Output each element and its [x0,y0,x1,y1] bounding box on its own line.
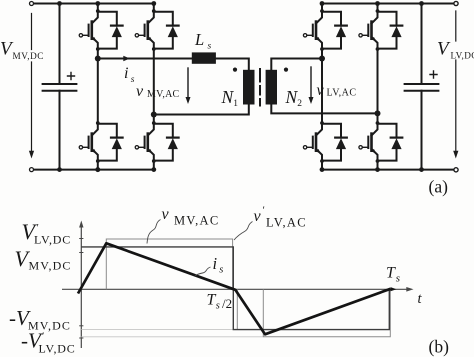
v_LV,AC arrow [309,67,314,104]
LV top terminal [454,1,458,5]
y axis arrowhead [79,221,83,228]
wire leg2 to N1 bottom [154,105,249,115]
svg-text:LV,DC: LV,DC [451,51,474,61]
svg-text:2: 2 [297,99,302,109]
svg-text:′: ′ [263,205,265,217]
x axis [62,288,407,290]
svg-text:V: V [437,39,451,60]
svg-text:T: T [386,265,396,282]
leader i_s [195,267,211,276]
tick V'LV [79,238,83,240]
svg-text:t: t [418,291,423,307]
leg1 wire [97,4,99,170]
node B (leg2 midpoint tap) [151,112,157,118]
v'_LV,AC waveform (thin) [106,239,390,337]
i_s waveform (thick) [78,243,391,334]
v_MV,AC waveform (medium) [81,247,389,330]
capacitor C_MV [43,4,77,170]
svg-text:LV,DC: LV,DC [34,233,71,247]
diode D8 [376,121,403,163]
transistor Q4 [135,124,154,161]
svg-text:L: L [194,30,204,49]
svg-text:s: s [216,301,220,312]
transistor Q7 [359,12,378,49]
x axis arrowhead [406,287,413,292]
svg-text:s: s [131,75,135,85]
diode D7 [376,9,403,51]
diode D3 [152,9,179,51]
wire leg1 to L_s [98,58,192,60]
leg4 wire [377,4,379,170]
svg-text:v: v [136,83,144,100]
svg-text:MV,DC: MV,DC [29,259,72,273]
transistor Q2 [79,124,98,161]
node A (leg1 midpoint) [95,56,101,62]
polarity dot N1 [233,68,237,72]
V_LV,DC measure arrow [453,11,458,159]
svg-text:s: s [396,273,400,285]
svg-text:MV,AC: MV,AC [174,214,220,228]
diode D6 [320,121,347,163]
transistor Q5 [303,12,322,49]
diode D2 [96,121,123,163]
leader v'_LV,AC [234,222,253,241]
transformer winding N2 [266,70,277,105]
svg-text:LV,DC: LV,DC [39,342,76,356]
leader v_MV,AC [147,220,161,244]
polarity dot N2 [284,68,288,72]
diode D5 [320,9,347,51]
i_s arrowhead [123,56,130,62]
LV top rail [322,3,454,5]
tick -V'LV [79,337,83,339]
i_s end arrowhead / T_s marker [391,287,397,291]
svg-text:s: s [219,265,223,276]
svg-text:MV,AC: MV,AC [147,89,180,100]
node C (leg3 midpoint) [319,56,325,62]
svg-text:s: s [208,42,212,52]
svg-text:v: v [254,208,262,225]
node D (leg4 midpoint tap) [375,110,381,116]
wire N2 to leg3 [271,59,322,70]
tick VMV [79,252,83,254]
svg-text:i: i [213,254,218,273]
svg-text:i: i [124,65,128,82]
faint -V'_LV,DC reference line [81,336,263,338]
svg-text:v: v [317,82,325,99]
transformer core [259,69,261,106]
MV top rail [34,3,154,5]
transistor Q1 [79,12,98,49]
leg2 wire [153,4,155,170]
transistor Q8 [359,124,378,161]
inductor L_s [192,52,216,63]
MV bottom terminal [30,168,34,172]
transformer winding N1 [243,70,255,105]
y axis [80,226,82,348]
V_MV,DC measure arrow [29,14,34,159]
svg-text:(b): (b) [429,337,450,357]
junction dots LV rails [320,1,424,172]
wire N2 bottom to leg4 [271,105,377,114]
MV top terminal [30,2,34,6]
LV bottom terminal [454,168,458,172]
tick -VMV [79,325,83,327]
svg-text:LV,AC: LV,AC [327,88,357,99]
junction dots MV rails [57,1,156,172]
wire L_s to N1 [216,59,249,70]
svg-text:/2: /2 [222,296,232,311]
capacitor C_LV [405,4,439,170]
svg-text:1: 1 [233,99,238,109]
LV bottom rail [322,169,454,171]
svg-text:MV,DC: MV,DC [13,51,44,61]
diode D1 [96,9,123,51]
transistor Q6 [303,124,322,161]
svg-text:(a): (a) [429,177,449,197]
diode D4 [152,121,179,163]
transistor Q3 [135,12,154,49]
leg3 wire [321,4,323,170]
MV bottom rail [34,169,154,171]
svg-text:LV,AC: LV,AC [266,216,307,230]
v_MV,AC arrow [186,68,191,104]
svg-text:v: v [162,206,170,223]
faint -V_MV,DC reference line [81,329,237,331]
